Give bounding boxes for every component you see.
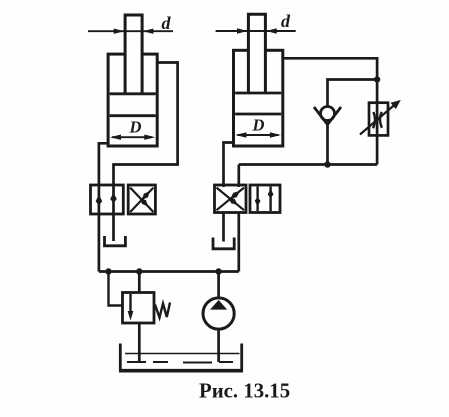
node: relief inlet junction [136, 268, 142, 274]
svg-text:Рис. 13.15: Рис. 13.15 [199, 380, 290, 403]
tank fluid surface [125, 353, 240, 355]
directional valve V2 right square (parallel-flow position) [250, 185, 280, 213]
directional valve V1 right square (crossed position) [128, 185, 155, 214]
piston C1 [110, 94, 156, 116]
dimension arrows D (right) [235, 132, 281, 137]
tank bottom [119, 369, 243, 373]
piston C2 [235, 93, 281, 114]
relief valve KP spring [155, 303, 170, 318]
relief valve KP drain to tank [138, 323, 141, 362]
wire: check valve to bottom line [326, 125, 329, 165]
wire: bottom line to right valve port [239, 165, 377, 188]
relief valve KP inlet wire [138, 272, 141, 293]
throttle DR adjustment arrow [360, 100, 401, 135]
main pump line [99, 270, 239, 273]
throttle DR arcs [373, 112, 382, 128]
dimension arrows D (left) [110, 135, 155, 140]
piston rod C2 [248, 14, 265, 93]
svg-text:d: d [162, 13, 172, 33]
svg-text:D: D [252, 116, 265, 135]
node: pump junction [215, 268, 221, 274]
node: check/throttle top junction [374, 76, 380, 82]
pump inlet/outlet wires [217, 272, 220, 363]
svg-text:D: D [129, 118, 142, 137]
dimension line d (left) [88, 29, 173, 34]
directional valve V2 left square (crossed position) [215, 185, 247, 213]
tank fluid shading [127, 361, 233, 364]
wire: right cylinder head port to throttle branch [283, 58, 377, 164]
wire: left cylinder bottom port through left valve to main line [99, 143, 108, 271]
wire: right cylinder bottom port to valve [224, 143, 234, 188]
wire: branch to check valve [328, 80, 378, 107]
cylinder C1 body (bore D) [108, 54, 157, 146]
relief valve KP internal arrow [128, 294, 134, 321]
throttle DR (adjustable) body [369, 103, 388, 136]
pump H (circle with flow triangle) [203, 298, 234, 329]
tank (reservoir) walls [120, 344, 241, 371]
svg-text:d: d [281, 11, 291, 31]
node: pilot junction [105, 268, 111, 274]
relief valve KP body [123, 293, 155, 324]
check valve KO (ball on seat) [321, 107, 335, 121]
tank symbol T2 (right drain) [213, 238, 234, 249]
cylinder C2 body (bore D) [234, 50, 283, 146]
tank symbol T1 (left drain) [105, 236, 126, 246]
piston rod C1 (diameter d) [125, 15, 142, 94]
wire: right valve supply riser [237, 213, 240, 272]
directional valve V1 left square (flow-through position) [91, 185, 124, 214]
wire: left cylinder head port to pipe through left valve to tank symbol [114, 63, 178, 242]
node: check bottom junction [324, 161, 330, 167]
dimension line d (right) [216, 28, 296, 33]
relief valve KP pilot line [109, 272, 123, 306]
wire: right valve drain to tank symbol [222, 213, 225, 242]
